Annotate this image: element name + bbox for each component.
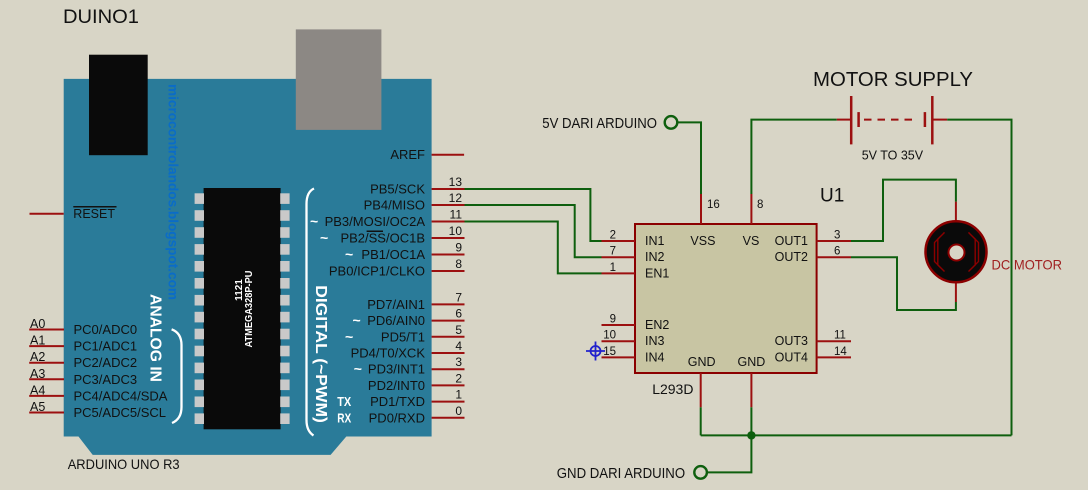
svg-text:A5: A5 bbox=[30, 400, 45, 414]
U1 pin 11 OUT3 stub bbox=[817, 340, 851, 342]
svg-text:DUINO1: DUINO1 bbox=[63, 7, 139, 28]
svg-text:IN1: IN1 bbox=[645, 234, 665, 248]
power jack (black) bbox=[89, 55, 148, 156]
digital pin 13 stub bbox=[432, 188, 465, 190]
svg-text:OUT2: OUT2 bbox=[775, 250, 808, 264]
U1 pin 2 IN1 stub bbox=[602, 240, 636, 242]
svg-text:MOTOR SUPPLY: MOTOR SUPPLY bbox=[813, 69, 973, 91]
svg-text:PB3/MOSI/OC2A: PB3/MOSI/OC2A bbox=[325, 214, 426, 229]
svg-text:EN2: EN2 bbox=[645, 318, 669, 332]
digital pin 6 stub bbox=[432, 320, 465, 322]
svg-text:GND: GND bbox=[738, 355, 766, 369]
svg-text:A3: A3 bbox=[30, 367, 45, 381]
svg-text:ATMEGA328P-PU: ATMEGA328P-PU bbox=[244, 271, 255, 348]
svg-text:2: 2 bbox=[455, 371, 462, 385]
svg-text:3: 3 bbox=[834, 230, 840, 242]
svg-text:PB4/MISO: PB4/MISO bbox=[364, 198, 425, 213]
svg-text:5: 5 bbox=[455, 323, 462, 337]
battery right short plate bbox=[924, 112, 927, 127]
svg-text:A2: A2 bbox=[30, 350, 45, 364]
svg-text:A4: A4 bbox=[30, 383, 45, 397]
U1 pin 6 OUT2 stub bbox=[817, 256, 851, 258]
svg-text:7: 7 bbox=[455, 290, 462, 304]
wire GND left stub down bbox=[700, 407, 702, 435]
svg-text:microcontrolandos.blogspot.com: microcontrolandos.blogspot.com bbox=[166, 84, 181, 300]
DC motor M1 body bbox=[926, 221, 987, 282]
digital pin 9 stub bbox=[432, 254, 465, 256]
svg-text:ANALOG IN: ANALOG IN bbox=[147, 294, 164, 382]
GND rail bbox=[701, 434, 1012, 436]
svg-text:5V DARI ARDUINO: 5V DARI ARDUINO bbox=[542, 115, 657, 132]
svg-text:8: 8 bbox=[455, 257, 462, 271]
label ANALOG IN bbox=[147, 294, 164, 382]
svg-text:GND DARI ARDUINO: GND DARI ARDUINO bbox=[557, 465, 685, 482]
svg-text:15: 15 bbox=[603, 346, 616, 358]
analog pins bracket bbox=[172, 329, 182, 423]
digital pin 7 stub bbox=[432, 303, 465, 305]
svg-text:IN4: IN4 bbox=[645, 350, 665, 364]
svg-text:10: 10 bbox=[449, 224, 463, 238]
svg-text:PD3/INT1: PD3/INT1 bbox=[368, 362, 425, 377]
IC U1 L293D body bbox=[635, 224, 817, 373]
origin marker (blue crosshair) bbox=[586, 342, 605, 361]
wire VS riser to battery bbox=[751, 120, 836, 194]
PB2 SS overline bbox=[367, 230, 383, 232]
digital pins bracket bbox=[307, 189, 315, 436]
U1 pin 1 EN1 stub bbox=[602, 272, 636, 274]
U1 GND right stub bbox=[750, 373, 752, 407]
U1 pin 16 VSS stub bbox=[700, 194, 702, 224]
svg-text:10: 10 bbox=[603, 330, 616, 342]
U1 pin 9 EN2 stub bbox=[602, 324, 636, 326]
digital pin 1 stub bbox=[432, 401, 465, 403]
svg-text:A0: A0 bbox=[30, 317, 45, 331]
digital pin 4 stub bbox=[432, 352, 465, 354]
svg-text:PD7/AIN1: PD7/AIN1 bbox=[367, 297, 425, 312]
battery right tall plate bbox=[931, 96, 934, 144]
watermark microcontrolandos.blogspot.com (rotated) bbox=[166, 84, 181, 300]
wire battery+ down right side bbox=[947, 120, 1011, 436]
svg-text:PD2/INT0: PD2/INT0 bbox=[368, 378, 425, 393]
svg-text:6: 6 bbox=[455, 307, 462, 321]
svg-text:PD5/T1: PD5/T1 bbox=[381, 329, 425, 344]
svg-text:VSS: VSS bbox=[690, 234, 715, 248]
svg-text:0: 0 bbox=[455, 404, 462, 418]
digital pin 0 stub bbox=[432, 417, 465, 419]
digital pin 3 stub bbox=[432, 368, 465, 370]
svg-text:~: ~ bbox=[320, 230, 328, 246]
svg-text:L293D: L293D bbox=[652, 381, 693, 397]
svg-text:RX: RX bbox=[337, 411, 352, 425]
svg-text:4: 4 bbox=[455, 339, 462, 353]
svg-text:6: 6 bbox=[834, 246, 840, 258]
svg-text:DC MOTOR: DC MOTOR bbox=[992, 257, 1063, 273]
svg-text:11: 11 bbox=[834, 330, 846, 342]
Arduino UNO board DUINO1 outline bbox=[64, 79, 432, 455]
digital pin 5 stub bbox=[432, 336, 465, 338]
svg-text:VS: VS bbox=[743, 234, 760, 248]
svg-text:TX: TX bbox=[337, 395, 352, 409]
svg-text:PC2/ADC2: PC2/ADC2 bbox=[74, 355, 138, 370]
svg-text:PD1/TXD: PD1/TXD bbox=[370, 394, 425, 409]
svg-text:EN1: EN1 bbox=[645, 266, 669, 280]
svg-text:9: 9 bbox=[455, 241, 462, 255]
pin A2 wire stub bbox=[29, 362, 64, 364]
digital pin 11 stub bbox=[432, 221, 465, 223]
battery dashed middle bbox=[864, 119, 916, 121]
battery right lead bbox=[932, 119, 947, 121]
svg-text:ARDUINO UNO R3: ARDUINO UNO R3 bbox=[68, 456, 180, 472]
wire GND right stub down bbox=[750, 407, 752, 435]
svg-text:PC3/ADC3: PC3/ADC3 bbox=[74, 372, 138, 387]
U1 pin 8 VS stub bbox=[750, 194, 752, 224]
svg-text:14: 14 bbox=[834, 346, 847, 358]
svg-text:PB2/SS/OC1B: PB2/SS/OC1B bbox=[340, 231, 425, 246]
svg-text:OUT1: OUT1 bbox=[775, 234, 808, 248]
battery left short plate bbox=[857, 112, 860, 127]
svg-text:PD4/T0/XCK: PD4/T0/XCK bbox=[351, 346, 426, 361]
junction bbox=[747, 431, 755, 439]
pin AREF stub bbox=[432, 154, 465, 156]
svg-text:~: ~ bbox=[345, 328, 353, 344]
svg-text:AREF: AREF bbox=[390, 147, 425, 162]
svg-text:1: 1 bbox=[610, 262, 616, 274]
svg-text:~: ~ bbox=[310, 213, 318, 229]
wire OUT1 to motor top bbox=[851, 180, 956, 241]
svg-text:PB0/ICP1/CLKO: PB0/ICP1/CLKO bbox=[329, 264, 425, 279]
svg-text:PC1/ADC1: PC1/ADC1 bbox=[74, 339, 138, 354]
svg-text:9: 9 bbox=[610, 314, 616, 326]
svg-text:11: 11 bbox=[450, 208, 463, 222]
wire D13 to IN1 bbox=[465, 189, 602, 241]
svg-text:7: 7 bbox=[610, 246, 616, 258]
svg-text:A1: A1 bbox=[30, 334, 45, 348]
USB connector (gray) bbox=[296, 29, 382, 129]
svg-text:DIGITAL (~PWM): DIGITAL (~PWM) bbox=[312, 285, 329, 423]
svg-text:2: 2 bbox=[610, 230, 616, 242]
svg-text:16: 16 bbox=[707, 199, 720, 211]
ATMEGA328P-PU label (rotated) bbox=[234, 271, 255, 348]
digital pin 8 stub bbox=[432, 270, 465, 272]
svg-text:U1: U1 bbox=[820, 186, 844, 207]
pin A5 wire stub bbox=[29, 412, 64, 414]
battery left tall plate bbox=[850, 96, 853, 144]
svg-text:8: 8 bbox=[757, 199, 763, 211]
wire 5V terminal to VSS bbox=[678, 122, 701, 194]
svg-text:5V TO 35V: 5V TO 35V bbox=[862, 148, 924, 162]
svg-text:1: 1 bbox=[455, 388, 462, 402]
svg-text:PD6/AIN0: PD6/AIN0 bbox=[367, 313, 425, 328]
wire D11 to EN1 bbox=[465, 222, 602, 274]
U1 pin 10 IN3 stub bbox=[602, 340, 636, 342]
U1 GND left stub bbox=[700, 373, 702, 407]
svg-text:RESET: RESET bbox=[73, 207, 115, 221]
pin A1 wire stub bbox=[29, 345, 64, 347]
svg-text:PD0/RXD: PD0/RXD bbox=[369, 410, 425, 425]
pin RESET wire stub bbox=[30, 213, 64, 215]
digital pin 10 stub bbox=[432, 237, 465, 239]
svg-text:~: ~ bbox=[353, 312, 361, 328]
svg-text:IN2: IN2 bbox=[645, 250, 665, 264]
label DIGITAL (~PWM) bbox=[312, 285, 329, 423]
svg-text:PC5/ADC5/SCL: PC5/ADC5/SCL bbox=[74, 405, 166, 420]
svg-text:OUT3: OUT3 bbox=[775, 334, 808, 348]
U1 pin 7 IN2 stub bbox=[602, 256, 636, 258]
wire OUT2 to motor bottom bbox=[851, 257, 956, 310]
svg-text:PC4/ADC4/SDA: PC4/ADC4/SDA bbox=[74, 388, 168, 403]
wire D12 to IN2 bbox=[465, 205, 602, 257]
IC U-ATMEGA328P DIP body bbox=[204, 188, 281, 429]
pin A4 wire stub bbox=[29, 395, 64, 397]
digital pin 2 stub bbox=[432, 384, 465, 386]
U1 pin 15 IN4 stub bbox=[602, 356, 636, 358]
pin A3 wire stub bbox=[29, 378, 64, 380]
svg-text:13: 13 bbox=[449, 175, 463, 189]
U1 pin 3 OUT1 stub bbox=[817, 240, 851, 242]
pin A0 wire stub bbox=[29, 329, 64, 331]
svg-text:~: ~ bbox=[345, 246, 353, 262]
svg-text:PC0/ADC0: PC0/ADC0 bbox=[74, 322, 138, 337]
motor bottom pin stub bbox=[955, 283, 957, 302]
svg-text:~: ~ bbox=[354, 361, 362, 377]
svg-text:PB1/OC1A: PB1/OC1A bbox=[361, 247, 425, 262]
svg-text:3: 3 bbox=[455, 355, 462, 369]
svg-text:GND: GND bbox=[688, 355, 716, 369]
svg-text:OUT4: OUT4 bbox=[775, 350, 808, 364]
wire GND terminal to rail bbox=[707, 435, 751, 472]
svg-text:PB5/SCK: PB5/SCK bbox=[370, 182, 425, 197]
battery BAT1 left lead bbox=[837, 119, 851, 121]
svg-text:IN3: IN3 bbox=[645, 334, 665, 348]
digital pin 12 stub bbox=[432, 204, 465, 206]
svg-text:12: 12 bbox=[449, 191, 463, 205]
motor top pin stub bbox=[955, 202, 957, 221]
U1 pin 14 OUT4 stub bbox=[817, 356, 851, 358]
